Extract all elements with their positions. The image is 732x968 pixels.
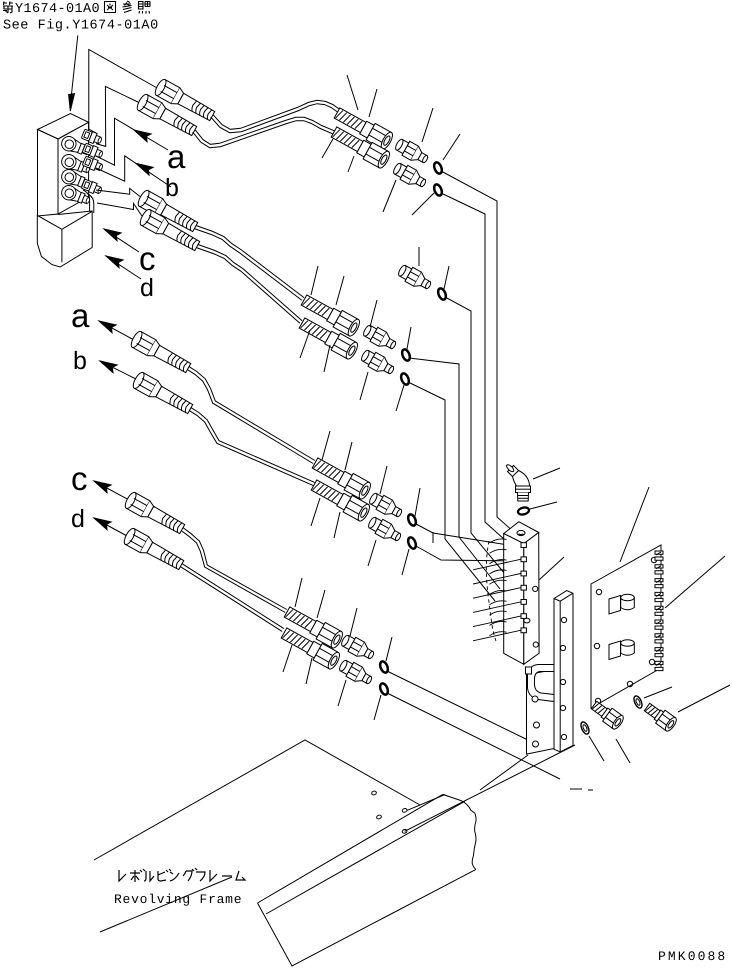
svg-text:Y1674-01A0: Y1674-01A0 — [15, 2, 100, 17]
svg-text:See Fig.Y1674-01A0: See Fig.Y1674-01A0 — [3, 19, 159, 34]
svg-text:a: a — [167, 138, 186, 175]
svg-text:c: c — [139, 240, 156, 277]
svg-text:a: a — [71, 297, 90, 334]
svg-text:d: d — [71, 505, 85, 533]
svg-text:d: d — [140, 274, 154, 302]
svg-text:Revolving Frame: Revolving Frame — [114, 892, 242, 907]
svg-text:b: b — [73, 347, 87, 375]
svg-text:PMK0088: PMK0088 — [658, 949, 727, 964]
svg-text:c: c — [71, 460, 88, 497]
svg-text:b: b — [165, 174, 179, 202]
